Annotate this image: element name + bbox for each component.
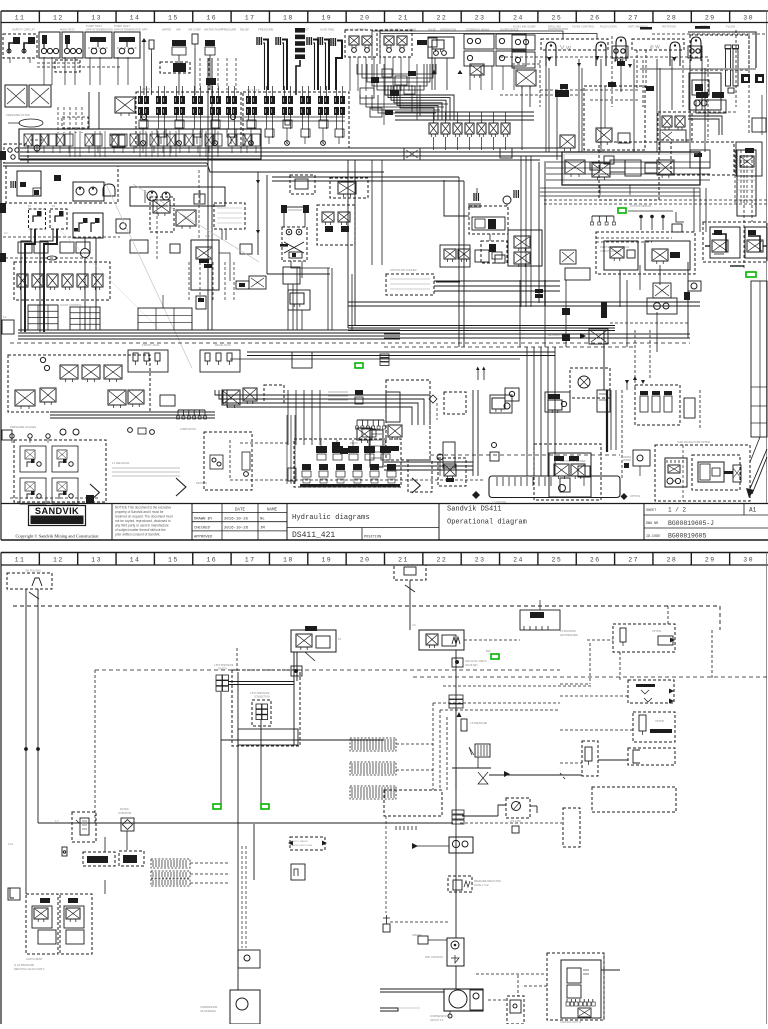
svg-text:FLOW CONTROL: FLOW CONTROL [572, 25, 595, 29]
svg-text:18: 18 [283, 15, 294, 22]
svg-text:Copyright © Sandvik Mining and: Copyright © Sandvik Mining and Construct… [16, 534, 100, 539]
svg-text:ROTATION: ROTATION [662, 25, 676, 29]
svg-text:PRESSURE: PRESSURE [222, 28, 237, 32]
svg-text:28: 28 [667, 15, 678, 22]
svg-text:FRONT JACK: FRONT JACK [142, 343, 160, 347]
svg-text:prior written consent of Sandv: prior written consent of Sandvik. [115, 533, 160, 537]
svg-text:P2: P2 [52, 204, 56, 208]
svg-text:OPTION AIR COOLER: OPTION AIR COOLER [390, 268, 417, 272]
svg-text:VALVE SET: VALVE SET [465, 664, 478, 667]
svg-text:29: 29 [705, 557, 716, 564]
svg-text:13: 13 [91, 557, 102, 564]
svg-text:19: 19 [321, 557, 332, 564]
svg-text:17: 17 [245, 557, 256, 564]
svg-text:24: 24 [513, 557, 524, 564]
svg-text:4.5KT PRESSURE: 4.5KT PRESSURE [214, 665, 234, 667]
svg-text:PRESSURE REDUCTION: PRESSURE REDUCTION [474, 881, 501, 883]
svg-text:DRILLING: DRILLING [548, 25, 561, 29]
svg-text:24: 24 [513, 15, 524, 22]
svg-text:Sandvik DS411: Sandvik DS411 [447, 506, 502, 514]
svg-text:12: 12 [53, 15, 64, 22]
svg-text:CIRCUIT OPTION: CIRCUIT OPTION [600, 249, 621, 253]
svg-text:SANDVIK: SANDVIK [35, 506, 79, 516]
svg-text:RETURN: RETURN [196, 481, 207, 485]
svg-text:any third party or used in man: any third party or used in manufacture [115, 524, 169, 528]
svg-text:OIL RESERVE: OIL RESERVE [200, 1010, 216, 1013]
svg-text:4.2 SEE DETAIL: 4.2 SEE DETAIL [112, 462, 130, 465]
svg-text:( ) OPTION: ( ) OPTION [492, 500, 506, 504]
svg-text:P1: P1 [28, 204, 32, 208]
svg-text:TANK FILLING PUMP OPTION: TANK FILLING PUMP OPTION [677, 441, 711, 444]
svg-text:28: 28 [667, 557, 678, 564]
svg-text:DRAIN: DRAIN [350, 442, 358, 445]
svg-text:NL: NL [260, 517, 265, 521]
svg-text:PRESSURE FILTER: PRESSURE FILTER [6, 113, 30, 117]
svg-text:1 2 3 4 5 6: 1 2 3 4 5 6 [140, 87, 153, 91]
svg-text:not be copied, reproduced, dis: not be copied, reproduced, disclosed to [115, 519, 171, 523]
svg-text:4.2: 4.2 [4, 231, 8, 235]
svg-text:25: 25 [551, 557, 562, 564]
svg-text:29: 29 [705, 15, 716, 22]
svg-text:WATER PUMP: WATER PUMP [204, 28, 223, 32]
svg-text:Operational diagram: Operational diagram [447, 519, 527, 527]
svg-text:4.8 PRESSURE: 4.8 PRESSURE [470, 722, 488, 725]
svg-text:18: 18 [283, 557, 294, 564]
svg-text:B10: B10 [486, 649, 491, 653]
svg-text:30: 30 [743, 557, 754, 564]
svg-text:DATE: DATE [235, 509, 246, 513]
svg-text:RELIEF: RELIEF [240, 28, 249, 32]
svg-text:JM: JM [260, 527, 265, 531]
svg-text:21: 21 [398, 15, 409, 22]
svg-text:4.5: 4.5 [412, 623, 416, 627]
svg-text:GREASE: GREASE [412, 934, 422, 937]
svg-text:CHECKED: CHECKED [194, 527, 211, 531]
svg-text:of subject matter thereof with: of subject matter thereof without the [115, 528, 166, 532]
svg-text:APPROVED: APPROVED [194, 536, 213, 540]
svg-text:DS411_421: DS411_421 [292, 531, 335, 540]
svg-text:OM PULSING: OM PULSING [25, 569, 41, 573]
svg-text:NAME: NAME [267, 509, 278, 513]
svg-text:DWG NR: DWG NR [646, 522, 658, 526]
svg-text:25: 25 [551, 15, 562, 22]
svg-text:REDUCING VALVE PUMP 2: REDUCING VALVE PUMP 2 [14, 968, 45, 971]
svg-text:PRESSURE: PRESSURE [258, 28, 274, 32]
svg-text:HOSE REEL: HOSE REEL [320, 28, 335, 32]
svg-text:27: 27 [628, 15, 639, 22]
svg-text:OXIDATOR: OXIDATOR [118, 811, 131, 815]
svg-text:AIR PRESSURE: AIR PRESSURE [560, 634, 578, 637]
svg-text:V w: V w [560, 45, 571, 52]
svg-text:AIR TO WATER: AIR TO WATER [292, 840, 308, 843]
svg-text:20: 20 [360, 15, 371, 22]
svg-text:FLUSH: FLUSH [726, 25, 735, 29]
svg-text:2016-10-25: 2016-10-25 [224, 517, 249, 521]
svg-text:13: 13 [91, 15, 102, 22]
svg-text:1 2 3 4 5 6: 1 2 3 4 5 6 [247, 88, 260, 92]
svg-text:LUBRICATION: LUBRICATION [180, 428, 196, 431]
svg-text:27: 27 [628, 557, 639, 564]
svg-text:26: 26 [590, 557, 601, 564]
svg-text:21: 21 [398, 557, 409, 564]
svg-text:Hydraulic diagrams: Hydraulic diagrams [292, 514, 370, 522]
svg-text:OPTION: OPTION [655, 720, 664, 723]
svg-text:MAIN TEST: MAIN TEST [60, 28, 75, 32]
svg-text:16: 16 [206, 15, 217, 22]
svg-text:W.38 LINE OILER: W.38 LINE OILER [513, 25, 536, 29]
svg-text:4.2: 4.2 [3, 316, 7, 319]
svg-text:WATER: WATER [162, 28, 171, 32]
svg-text:LTS GATE: LTS GATE [510, 820, 521, 823]
svg-text:20: 20 [360, 557, 371, 564]
svg-text:30: 30 [743, 15, 754, 22]
svg-text:22: 22 [436, 557, 447, 564]
svg-text:22: 22 [436, 15, 447, 22]
svg-text:POSITION: POSITION [364, 536, 381, 540]
svg-text:RATED: RATED [120, 807, 129, 811]
svg-text:CONNECTION: CONNECTION [254, 697, 270, 699]
svg-text:NOTICE This document is the e: NOTICE This document is the exclusive [115, 505, 172, 509]
svg-text:15: 15 [168, 15, 179, 22]
svg-text:CIRCUIT 4.9: CIRCUIT 4.9 [430, 1020, 444, 1022]
svg-text:1.2: 1.2 [55, 820, 59, 823]
svg-text:returned on request. The docum: returned on request. The document must [115, 514, 173, 518]
svg-text:23: 23 [475, 15, 486, 22]
svg-text:(4.10) PRESSURE: (4.10) PRESSURE [14, 964, 34, 967]
svg-text:COMPRESSOR: COMPRESSOR [200, 1006, 218, 1009]
svg-text:OPTION: OPTION [630, 494, 640, 498]
svg-text:BG00819605-J: BG00819605-J [668, 520, 714, 527]
svg-text:PRESSURE GAUGES: PRESSURE GAUGES [10, 425, 36, 429]
svg-text:HPP: HPP [142, 28, 148, 32]
svg-text:11: 11 [15, 557, 26, 564]
svg-text:4.10: 4.10 [8, 843, 13, 846]
svg-text:OPTION: OPTION [652, 630, 661, 633]
svg-text:LKS: LKS [205, 234, 210, 238]
svg-text:14: 14 [130, 557, 141, 564]
svg-text:11: 11 [15, 15, 26, 22]
svg-text:HPP INTERMEDIATE: HPP INTERMEDIATE [86, 28, 113, 32]
svg-text:15: 15 [168, 557, 179, 564]
svg-text:PUMP TEST: PUMP TEST [86, 24, 102, 28]
svg-text:HPP INTERMEDIATE: HPP INTERMEDIATE [114, 28, 141, 32]
svg-text:REAR JACK: REAR JACK [215, 343, 231, 347]
svg-text:⌀ w: ⌀ w [650, 45, 660, 51]
svg-text:DRIVE SHUTDOWN: DRIVE SHUTDOWN [292, 845, 313, 847]
svg-text:4.6 BOOSTER: 4.6 BOOSTER [560, 630, 576, 633]
svg-text:JACKS FRONT: JACKS FRONT [26, 958, 43, 961]
svg-text:26: 26 [590, 15, 601, 22]
svg-text:AIR: AIR [176, 28, 181, 32]
svg-text:BG00819605: BG00819605 [668, 533, 707, 540]
svg-text:MIST OXIDATOR: MIST OXIDATOR [425, 956, 443, 959]
svg-text:8.1: 8.1 [338, 637, 342, 641]
svg-text:1 / 2: 1 / 2 [668, 507, 686, 514]
svg-text:JACKS CONTROL: JACKS CONTROL [60, 303, 82, 307]
svg-text:23: 23 [475, 557, 486, 564]
svg-text:17: 17 [245, 15, 256, 22]
svg-text:14: 14 [130, 15, 141, 22]
svg-text:4.5KT PRESSURE: 4.5KT PRESSURE [250, 693, 270, 695]
svg-text:VALVE 1.7 bar: VALVE 1.7 bar [474, 884, 489, 887]
svg-text:PUMP TEST: PUMP TEST [114, 24, 130, 28]
svg-text:COMPRESSOR OIL: COMPRESSOR OIL [430, 1016, 452, 1018]
svg-text:2016-10-26: 2016-10-26 [224, 527, 249, 531]
svg-text:AIR COMP: AIR COMP [188, 28, 201, 32]
svg-text:property of Sandvik and it mus: property of Sandvik and it must be [115, 510, 164, 514]
svg-text:16: 16 [206, 557, 217, 564]
svg-text:A640 DUAL CHECK: A640 DUAL CHECK [465, 660, 487, 663]
svg-text:SAFETY CIRCUIT: SAFETY CIRCUIT [12, 28, 35, 32]
svg-text:SHEET: SHEET [646, 509, 656, 513]
svg-text:ID-CODE: ID-CODE [646, 535, 660, 539]
svg-text:PLUG CONN: PLUG CONN [600, 25, 617, 29]
svg-text:A1: A1 [749, 507, 757, 514]
svg-text:OPTION MIRROR: OPTION MIRROR [630, 204, 651, 208]
svg-text:12: 12 [53, 557, 64, 564]
svg-text:DRAWN BY: DRAWN BY [194, 517, 213, 521]
svg-text:19: 19 [321, 15, 332, 22]
